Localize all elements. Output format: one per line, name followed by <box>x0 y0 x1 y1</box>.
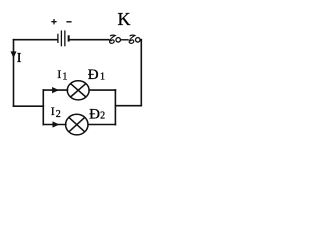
wire switch to right corner <box>139 39 142 41</box>
wire switch middle <box>121 39 129 41</box>
arrow I (down) on left wire <box>11 51 17 58</box>
svg-text:Đ2: Đ2 <box>89 106 105 122</box>
wire branch1 left <box>43 89 67 91</box>
wire branch1 right <box>89 89 115 91</box>
wire right-mid horizontal <box>115 105 141 107</box>
lamp D1 <box>67 81 89 100</box>
switch K contact 2 curl <box>129 35 135 43</box>
node left junction vertical <box>42 90 44 125</box>
wire right vertical <box>140 40 142 106</box>
wire battery to switch <box>70 39 109 41</box>
svg-text:I1: I1 <box>57 67 67 83</box>
switch K contact 1 ring <box>116 38 121 43</box>
arrow I1 (right) on branch1 <box>52 87 59 93</box>
wire left vertical <box>13 40 15 107</box>
svg-text:I2: I2 <box>51 104 61 120</box>
lamp D2 <box>66 114 88 135</box>
node right junction vertical <box>114 90 116 125</box>
switch K contact 2 ring <box>136 38 141 43</box>
wire branch2 left <box>43 124 66 126</box>
label + <box>51 19 56 24</box>
wire branch2 right <box>88 124 115 126</box>
svg-text:I: I <box>17 51 22 66</box>
wire left-mid horizontal <box>14 105 44 107</box>
wire top-left horizontal <box>14 39 58 41</box>
arrow I2 (right) on branch2 <box>53 121 60 127</box>
switch K contact 1 curl <box>110 35 116 43</box>
battery (cells) <box>58 30 69 46</box>
label - <box>66 21 71 23</box>
svg-text:K: K <box>118 9 131 29</box>
svg-text:Đ1: Đ1 <box>88 67 105 83</box>
